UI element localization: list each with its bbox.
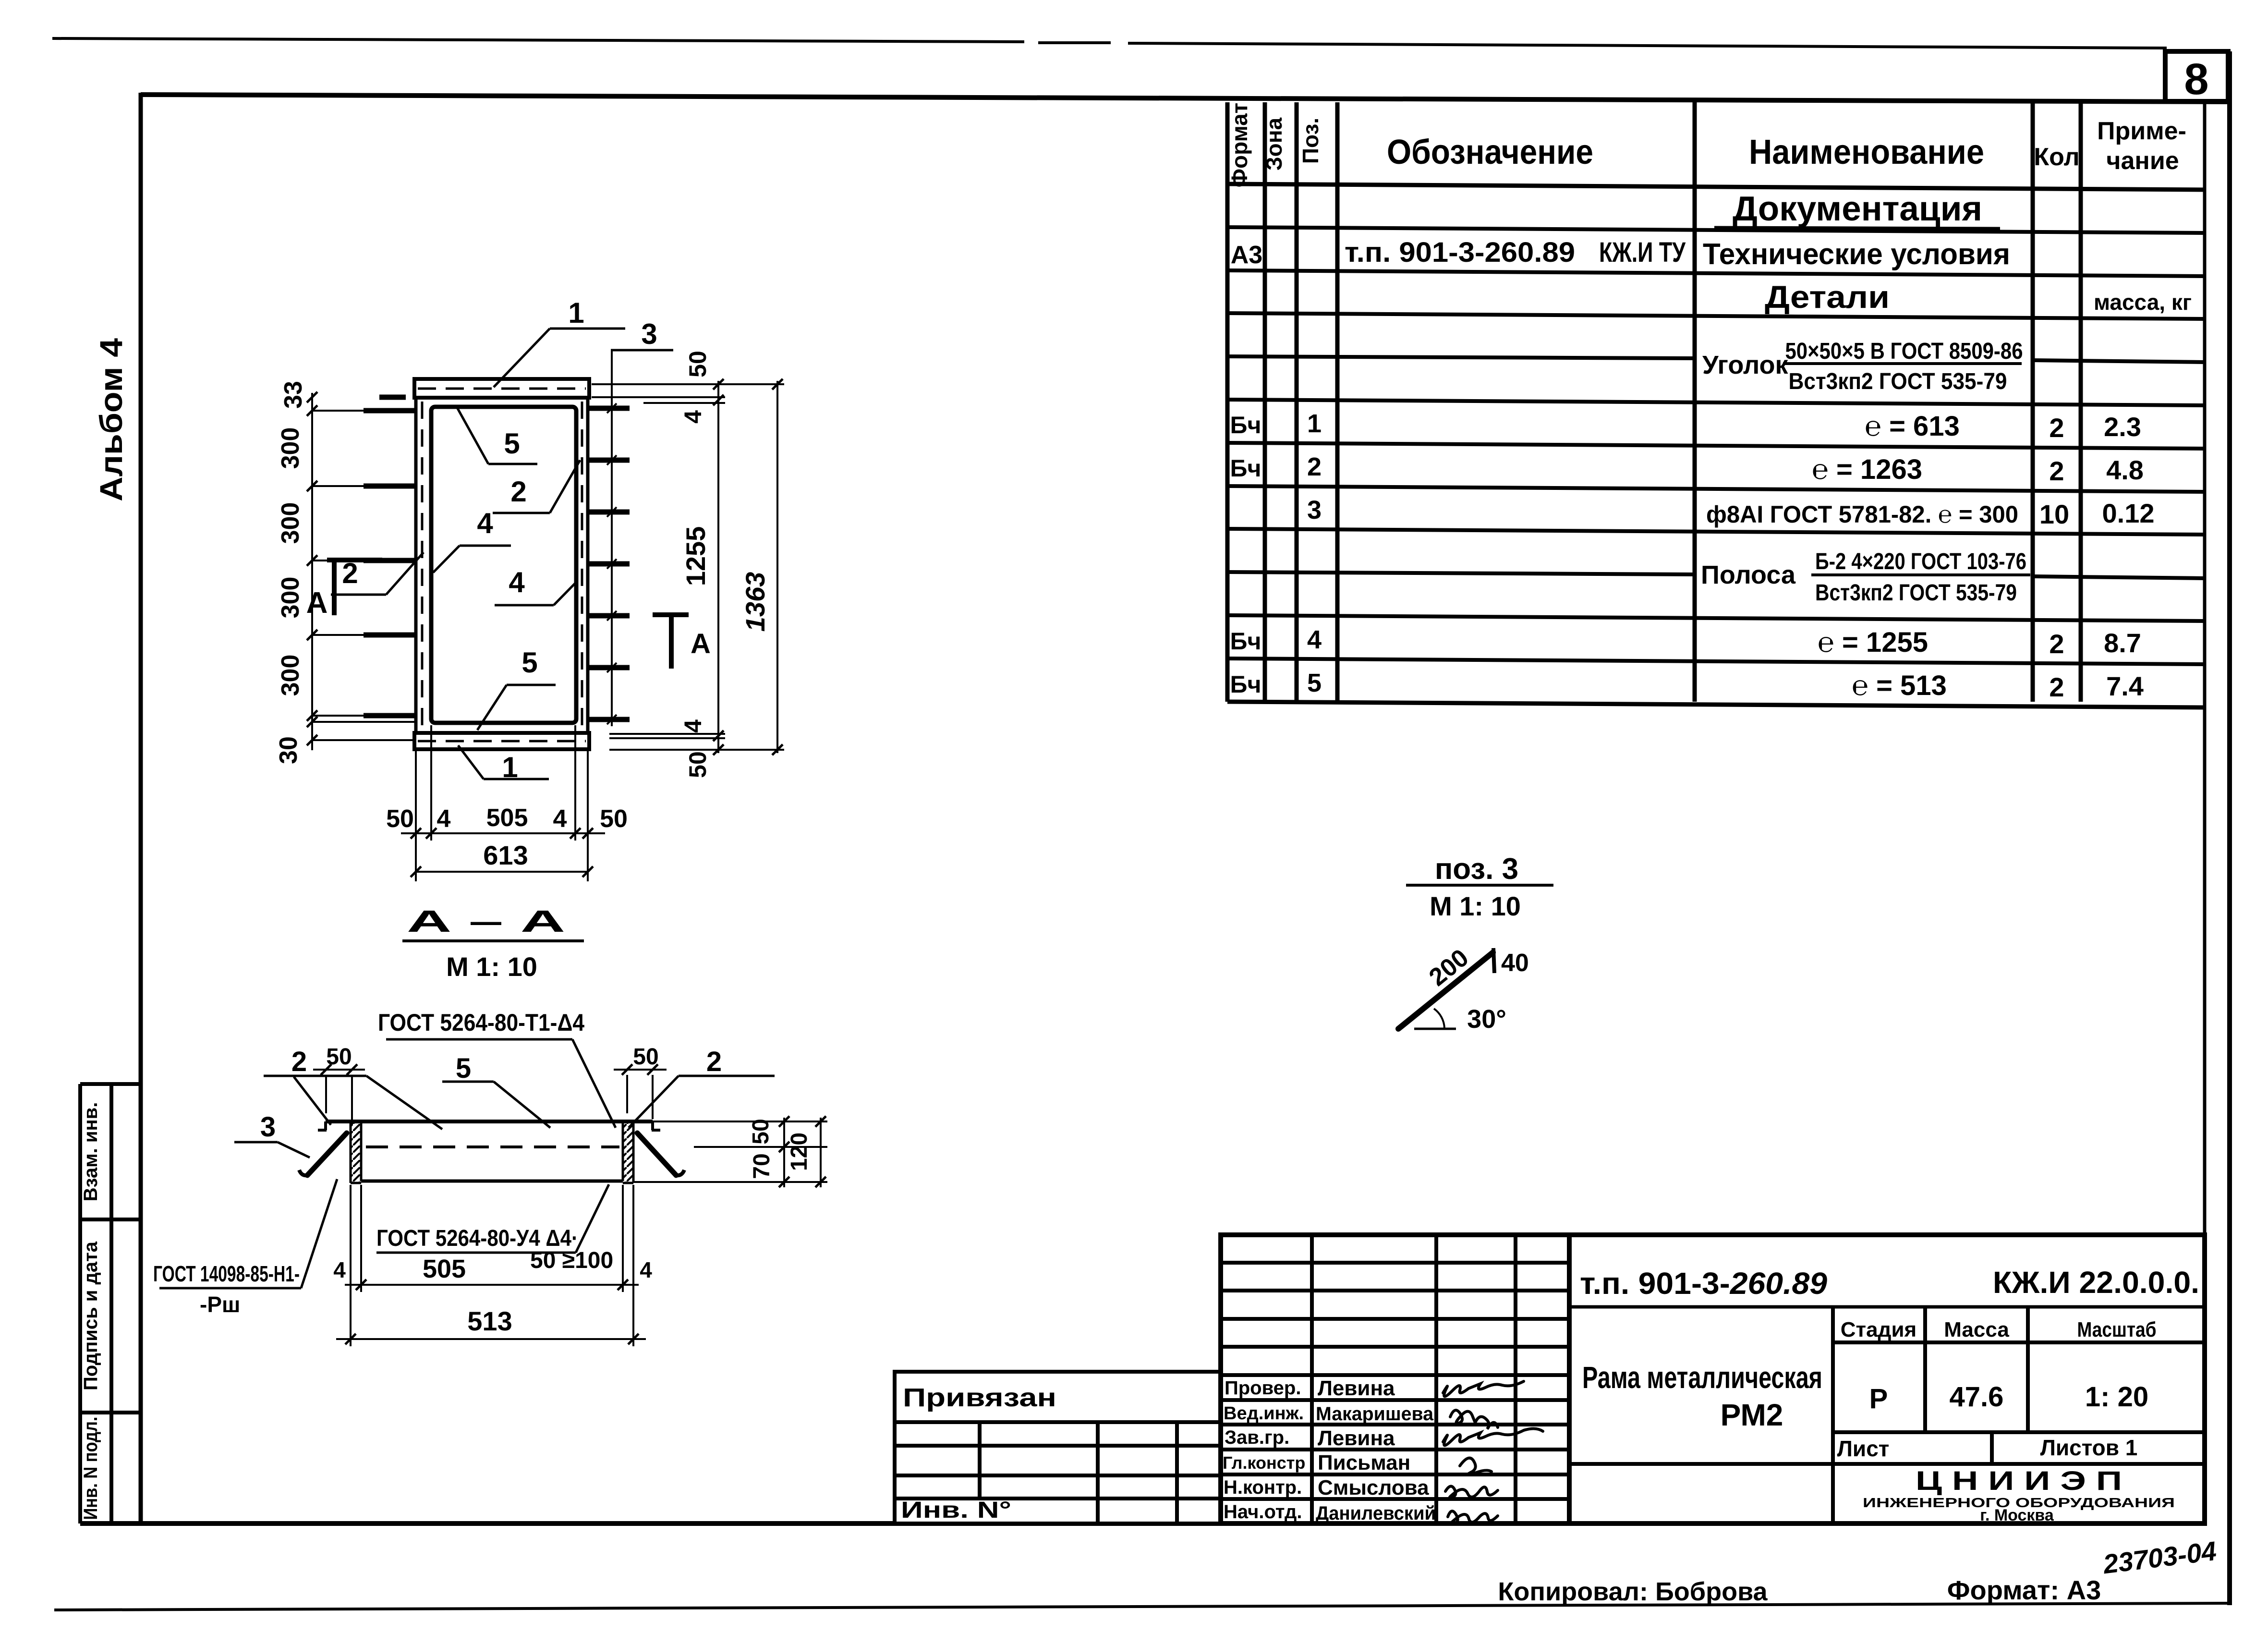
svg-text:поз. 3: поз. 3 xyxy=(1435,853,1518,886)
plan view inner opening frame part 5 xyxy=(431,407,576,723)
row Полоса fraction xyxy=(1701,549,2030,606)
signature grid xyxy=(1221,1235,1569,1523)
svg-text:2: 2 xyxy=(291,1046,307,1077)
svg-text:5: 5 xyxy=(456,1053,471,1084)
section mark A right xyxy=(653,615,711,669)
kopiroval text xyxy=(1498,1577,1768,1606)
organization ЦНИИЭП xyxy=(1863,1465,2175,1524)
svg-text:Альбом 4: Альбом 4 xyxy=(93,338,129,501)
svg-text:2: 2 xyxy=(510,475,526,508)
svg-text:Вст3кп2 ГОСТ 535-79: Вст3кп2 ГОСТ 535-79 xyxy=(1815,580,2017,606)
sheet top edge break dash xyxy=(1038,41,1111,44)
svg-text:4.8: 4.8 xyxy=(2106,455,2144,485)
leader 5 lower xyxy=(477,646,556,730)
sheet top edge line left segment xyxy=(52,38,1024,42)
title block outer xyxy=(1221,1235,2205,1523)
svg-text:Обозначение: Обозначение xyxy=(1387,133,1593,171)
row poz4 е=1255 xyxy=(1230,625,2141,659)
svg-text:5: 5 xyxy=(522,646,537,679)
svg-text:℮ = 513: ℮ = 513 xyxy=(1852,670,1947,701)
svg-text:Копировал: Боброва: Копировал: Боброва xyxy=(1498,1577,1768,1606)
section weld text ГОСТ 5264-80-У4 xyxy=(376,1184,613,1273)
left chain tick marks xyxy=(307,392,317,745)
svg-text:3: 3 xyxy=(1307,496,1322,524)
svg-text:50×50×5 В ГОСТ 8509-86: 50×50×5 В ГОСТ 8509-86 xyxy=(1785,339,2023,364)
svg-text:2: 2 xyxy=(2049,672,2064,702)
plan view left vertical member part 4 xyxy=(416,398,422,733)
row Документация xyxy=(1714,190,2000,229)
left filing margin strip xyxy=(80,1084,141,1523)
svg-text:50: 50 xyxy=(684,751,711,778)
svg-text:47.6: 47.6 xyxy=(1950,1381,2004,1413)
svg-text:Поз.: Поз. xyxy=(1298,118,1323,164)
sheet top edge line right segment xyxy=(1128,43,2167,48)
svg-text:3: 3 xyxy=(641,318,657,350)
svg-text:М 1: 10: М 1: 10 xyxy=(446,951,537,982)
format A3 text xyxy=(1947,1575,2101,1605)
section mark A left xyxy=(306,558,382,620)
svg-text:Бч: Бч xyxy=(1230,671,1261,698)
svg-text:4: 4 xyxy=(509,566,525,598)
row poz5 е=513 xyxy=(1230,669,2144,702)
sheet bottom edge line xyxy=(54,1603,2231,1610)
svg-text:4: 4 xyxy=(437,805,451,833)
svg-text:РМ2: РМ2 xyxy=(1721,1398,1783,1432)
svg-text:ГОСТ 14098-85-Н1-: ГОСТ 14098-85-Н1- xyxy=(153,1261,300,1286)
svg-text:Детали: Детали xyxy=(1765,279,1890,315)
section leader 3 xyxy=(234,1111,310,1158)
plan view right vertical member part 4 xyxy=(582,398,588,733)
spec header Обозначение xyxy=(1387,133,1593,171)
svg-text:Данилевский: Данилевский xyxy=(1316,1503,1436,1524)
plan view top plate part 1 xyxy=(414,379,589,398)
svg-text:2: 2 xyxy=(706,1046,722,1077)
signature roles xyxy=(1223,1377,1305,1523)
title name Рама металлическая РМ2 xyxy=(1582,1360,1822,1432)
svg-text:50: 50 xyxy=(600,805,628,833)
title designation т.п. 901-3-260.89 xyxy=(1569,1265,2205,1307)
svg-text:-Рш: -Рш xyxy=(200,1292,240,1317)
svg-text:Инв. N подл.: Инв. N подл. xyxy=(80,1417,101,1520)
svg-text:Письман: Письман xyxy=(1318,1451,1410,1474)
svg-text:4: 4 xyxy=(553,805,567,833)
section right dims 50 70 120 xyxy=(633,1116,827,1187)
spec header Зона xyxy=(1261,117,1286,171)
svg-text:4: 4 xyxy=(477,507,493,539)
spec header Кол xyxy=(2034,143,2079,171)
margin label Инв. N подл. xyxy=(80,1417,101,1520)
svg-text:Нач.отд.: Нач.отд. xyxy=(1224,1501,1302,1523)
section dim 50 top left xyxy=(313,1044,365,1125)
svg-text:Формат: А3: Формат: А3 xyxy=(1947,1575,2101,1605)
svg-text:50 ≥100: 50 ≥100 xyxy=(530,1248,613,1273)
svg-text:10: 10 xyxy=(2039,499,2069,529)
svg-text:505: 505 xyxy=(423,1255,466,1283)
svg-text:Формат: Формат xyxy=(1227,103,1252,187)
svg-text:4: 4 xyxy=(333,1257,346,1282)
right anchors extension line with ticks xyxy=(607,350,617,726)
svg-text:505: 505 xyxy=(486,804,528,832)
row poz1 е=613 xyxy=(1230,409,2141,443)
svg-text:50: 50 xyxy=(684,351,711,378)
right overall chain 1363 xyxy=(740,379,783,755)
inv number text xyxy=(901,1498,1011,1523)
leader 2 left outer xyxy=(331,552,424,595)
svg-text:℮ = 613: ℮ = 613 xyxy=(1865,411,1960,442)
svg-text:300: 300 xyxy=(277,502,304,544)
svg-text:А: А xyxy=(306,586,328,620)
svg-text:40: 40 xyxy=(1501,949,1529,977)
svg-text:Рама металлическая: Рама металлическая xyxy=(1582,1360,1822,1395)
svg-text:Провер.: Провер. xyxy=(1225,1377,1301,1399)
svg-text:ф8АI ГОСТ 5781-82. ℮ = 300: ф8АI ГОСТ 5781-82. ℮ = 300 xyxy=(1706,501,2018,528)
svg-text:8.7: 8.7 xyxy=(2104,628,2141,658)
privyazan table xyxy=(895,1372,1221,1523)
svg-text:КЖ.И ТУ: КЖ.И ТУ xyxy=(1599,237,1686,268)
svg-text:300: 300 xyxy=(277,577,304,619)
leader 4 left xyxy=(433,507,511,573)
svg-text:Гл.констр: Гл.констр xyxy=(1223,1453,1305,1473)
svg-text:1255: 1255 xyxy=(680,526,711,586)
right inner vertical line (spec column edge continuation) xyxy=(2203,102,2207,1523)
row poz3 xyxy=(1307,496,2155,529)
svg-text:Н.контр.: Н.контр. xyxy=(1224,1477,1302,1498)
svg-text:Масса: Масса xyxy=(1944,1318,2009,1341)
svg-text:Б-2 4×220 ГОСТ 103-76: Б-2 4×220 ГОСТ 103-76 xyxy=(1815,549,2026,574)
svg-text:7.4: 7.4 xyxy=(2106,671,2144,701)
section overall dim 513 xyxy=(336,1185,646,1346)
section weld text ГОСТ 5264-80-Т1 xyxy=(378,1009,616,1128)
svg-text:1: 1 xyxy=(1307,409,1322,438)
svg-text:2.3: 2.3 xyxy=(2104,412,2141,442)
margin label Подпись и дата xyxy=(80,1241,101,1390)
svg-text:5: 5 xyxy=(1307,669,1322,697)
svg-text:Бч: Бч xyxy=(1230,628,1261,655)
svg-text:Наименование: Наименование xyxy=(1749,133,1984,171)
section left anchor stub part 3 xyxy=(299,1133,347,1175)
svg-text:Приме-: Приме- xyxy=(2097,117,2186,145)
spec header Формат xyxy=(1227,103,1252,187)
svg-text:Инв. N°: Инв. N° xyxy=(901,1498,1011,1523)
svg-text:Документация: Документация xyxy=(1733,190,1982,228)
spec header Наименование xyxy=(1749,133,1984,171)
left anchor bars part 3 xyxy=(364,397,416,716)
row poz2 е=1263 xyxy=(1230,452,2144,486)
section left angle part 2 hatched xyxy=(351,1121,361,1183)
svg-text:Левина: Левина xyxy=(1318,1377,1395,1400)
section A-A top flange line xyxy=(318,1121,660,1130)
leader 1 top xyxy=(494,297,625,387)
svg-text:2: 2 xyxy=(2049,629,2064,659)
leader 1 bottom xyxy=(458,745,549,783)
svg-text:4: 4 xyxy=(1307,625,1322,654)
plan view bottom plate part 1 xyxy=(414,733,589,749)
svg-text:Уголок: Уголок xyxy=(1702,351,1789,379)
svg-text:КЖ.И 22.0.0.0.: КЖ.И 22.0.0.0. xyxy=(1993,1265,2199,1300)
svg-text:513: 513 xyxy=(467,1306,512,1336)
section right angle part 2 hatched xyxy=(623,1121,633,1183)
svg-text:Лист: Лист xyxy=(1837,1436,1890,1461)
section dim 505 with 4s xyxy=(333,1185,652,1292)
svg-text:2: 2 xyxy=(1307,452,1322,481)
leader 5 upper xyxy=(457,407,537,464)
spec header Примечание xyxy=(2097,117,2186,175)
svg-text:300: 300 xyxy=(277,427,304,469)
svg-text:Взам. инв.: Взам. инв. xyxy=(80,1102,101,1202)
left dimension chain lines xyxy=(311,393,416,750)
svg-text:Стадия: Стадия xyxy=(1841,1318,1916,1341)
svg-text:4: 4 xyxy=(640,1257,652,1282)
detail label поз. 3 xyxy=(1406,853,1553,921)
detail rod part 3 xyxy=(1398,944,1529,1034)
svg-text:ГОСТ 5264-80-Т1-Δ4: ГОСТ 5264-80-Т1-Δ4 xyxy=(378,1009,584,1036)
svg-text:8: 8 xyxy=(2184,55,2208,104)
svg-text:1363: 1363 xyxy=(740,572,770,632)
svg-text:2: 2 xyxy=(2049,456,2064,486)
svg-text:Ц Н И И Э П: Ц Н И И Э П xyxy=(1916,1465,2122,1496)
svg-text:33: 33 xyxy=(279,381,307,409)
svg-text:120: 120 xyxy=(787,1133,812,1171)
right dimension chain 1255 xyxy=(592,351,784,778)
svg-text:2: 2 xyxy=(2049,413,2064,443)
svg-text:масса, кг: масса, кг xyxy=(2094,290,2192,315)
svg-text:1: 20: 1: 20 xyxy=(2085,1381,2148,1413)
section label А-А xyxy=(402,904,584,982)
section weld text ГОСТ 14098-85 xyxy=(153,1179,337,1317)
list row xyxy=(1569,1432,2205,1464)
section web part 5 xyxy=(361,1121,623,1181)
svg-text:Бч: Бч xyxy=(1230,455,1261,482)
leader 4 center xyxy=(495,566,577,605)
right anchor bars part 3 xyxy=(589,408,630,719)
svg-text:т.п. 901-3-260.89: т.п. 901-3-260.89 xyxy=(1345,237,1575,268)
svg-text:Зона: Зона xyxy=(1261,117,1286,171)
privyazan text xyxy=(903,1383,1056,1412)
svg-text:г. Москва: г. Москва xyxy=(1980,1506,2054,1524)
svg-text:Привязан: Привязан xyxy=(903,1383,1056,1412)
svg-text:Листов 1: Листов 1 xyxy=(2040,1435,2138,1460)
svg-text:А3: А3 xyxy=(1231,241,1262,269)
svg-text:℮ = 1255: ℮ = 1255 xyxy=(1818,627,1928,658)
svg-text:Макаришева: Макаришева xyxy=(1316,1403,1434,1425)
svg-text:Р: Р xyxy=(1869,1383,1888,1414)
svg-text:2: 2 xyxy=(342,557,358,589)
svg-text:т.п. 901-3-260.89: т.п. 901-3-260.89 xyxy=(1580,1266,1827,1301)
svg-text:3: 3 xyxy=(260,1111,276,1143)
svg-text:30: 30 xyxy=(275,736,303,764)
svg-text:Технические условия: Технические условия xyxy=(1703,238,2010,271)
svg-text:Вст3кп2 ГОСТ 535-79: Вст3кп2 ГОСТ 535-79 xyxy=(1789,369,2007,394)
spec table grid xyxy=(1227,102,2205,707)
svg-text:30°: 30° xyxy=(1467,1005,1506,1034)
svg-text:1: 1 xyxy=(568,297,584,329)
svg-text:613: 613 xyxy=(483,840,528,870)
page number box with 8 xyxy=(2165,51,2228,104)
signature names xyxy=(1316,1377,1436,1524)
section leader 2 right xyxy=(629,1046,775,1128)
row Детали xyxy=(1755,279,2192,317)
svg-text:Масштаб: Масштаб xyxy=(2077,1318,2157,1341)
svg-text:А: А xyxy=(691,628,711,659)
svg-text:70: 70 xyxy=(749,1153,775,1179)
svg-text:Бч: Бч xyxy=(1230,412,1261,439)
bottom dimension chain 50 4 505 4 50 xyxy=(386,725,628,881)
album label Альбом 4 xyxy=(93,338,129,501)
svg-text:А – А: А – А xyxy=(407,904,565,938)
svg-text:Подпись и дата: Подпись и дата xyxy=(80,1241,101,1390)
svg-text:Полоса: Полоса xyxy=(1701,561,1796,589)
margin label Взам. инв. xyxy=(80,1102,101,1202)
section leader 5 xyxy=(442,1053,550,1128)
left dimension labels 33 300 30 xyxy=(275,381,307,764)
svg-text:Зав.гр.: Зав.гр. xyxy=(1225,1427,1289,1448)
svg-text:300: 300 xyxy=(277,655,304,696)
section leader 2 left xyxy=(264,1046,442,1129)
svg-text:4: 4 xyxy=(679,719,706,733)
svg-text:5: 5 xyxy=(504,427,520,460)
signature scribbles xyxy=(1443,1381,1543,1524)
leader 3 top right xyxy=(611,318,673,350)
spec header Поз. xyxy=(1298,118,1323,164)
stadiya massa masshtab grid xyxy=(1833,1307,2205,1523)
svg-text:50: 50 xyxy=(386,805,414,833)
handwritten number 23703-04 xyxy=(2101,1535,2218,1579)
svg-text:0.12: 0.12 xyxy=(2102,498,2155,528)
row Уголок fraction xyxy=(1702,339,2023,394)
svg-text:℮ = 1263: ℮ = 1263 xyxy=(1812,454,1922,485)
svg-text:М 1: 10: М 1: 10 xyxy=(1430,891,1521,921)
svg-text:Смыслова: Смыслова xyxy=(1318,1476,1429,1499)
row А3 obozn xyxy=(1231,237,2010,271)
svg-text:Вед.инж.: Вед.инж. xyxy=(1224,1403,1304,1424)
svg-text:50: 50 xyxy=(748,1119,774,1144)
section right anchor stub part 3 xyxy=(637,1133,684,1175)
svg-text:Левина: Левина xyxy=(1318,1426,1395,1450)
leader 2 right inner xyxy=(493,460,580,513)
svg-text:Кол: Кол xyxy=(2034,143,2079,171)
svg-text:4: 4 xyxy=(679,410,706,424)
section dim 50 top right xyxy=(614,1044,667,1119)
bottom overall dimension 613 xyxy=(411,840,593,877)
svg-text:чание: чание xyxy=(2106,147,2179,175)
